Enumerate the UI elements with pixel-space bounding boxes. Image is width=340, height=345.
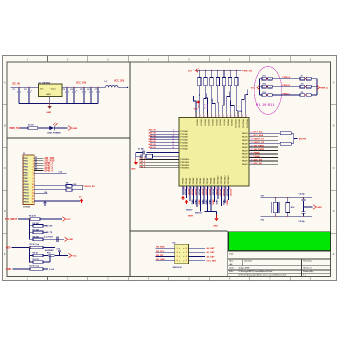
svg-text:PB10/T10: PB10/T10 — [234, 119, 236, 128]
svg-text:PC4/AD: PC4/AD — [181, 142, 189, 145]
wire RN4 to MCU — [218, 86, 219, 112]
svg-text:PB18/T: PB18/T — [212, 189, 214, 196]
svg-text:I2C1_SCL: I2C1_SCL — [254, 132, 264, 134]
svg-text:PD0/SEG: PD0/SEG — [181, 159, 190, 161]
resistor RN4 pull-up — [217, 70, 218, 71]
title block texts — [229, 253, 314, 277]
svg-text:R12: R12 — [263, 84, 266, 86]
resistor RN5 pull-up — [223, 70, 224, 71]
wire row 2 middle — [272, 86, 300, 88]
connector J1 body — [23, 155, 34, 205]
svg-text:23: 23 — [251, 142, 253, 144]
svg-text:15: 15 — [32, 198, 34, 200]
wire MCU bottom pin 6 — [200, 186, 202, 212]
svg-text:SWDIO: SWDIO — [186, 210, 193, 212]
wire R1 to LED1 — [38, 127, 50, 129]
svg-text:File:: File: — [229, 271, 234, 273]
svg-text:42: 42 — [241, 115, 244, 117]
title block column lines — [242, 259, 244, 266]
MCU top inside pin names — [196, 119, 248, 128]
wire U3 right pin 2 — [189, 251, 206, 253]
svg-text:PB4/T4: PB4/T4 — [211, 119, 214, 126]
wire row 2 to right bus — [311, 86, 317, 88]
wire XTAL2 — [136, 155, 141, 157]
wire MCU bottom pin 5 — [196, 186, 198, 207]
svg-text:GND: GND — [213, 225, 218, 227]
svg-text:1 2 3: 1 2 3 — [204, 105, 208, 107]
svg-text:Number: Number — [245, 260, 253, 263]
svg-text:VCC: VCC — [251, 87, 256, 89]
svg-text:PA9/X: PA9/X — [242, 163, 248, 166]
svg-text:TIM_PWM2: TIM_PWM2 — [254, 149, 265, 151]
svg-text:21: 21 — [251, 135, 253, 137]
svg-text:PE6/A6: PE6/A6 — [203, 178, 206, 185]
wire RN2 to MCU — [205, 86, 207, 112]
capacitor C3 — [66, 87, 68, 91]
capacitor C16 — [142, 151, 144, 155]
svg-text:SWCLK: SWCLK — [195, 213, 203, 215]
wire J1 pin 4 — [34, 165, 44, 167]
svg-text:PB112/T: PB112/T — [226, 189, 228, 197]
wire to bottom ground — [216, 212, 218, 218]
wire row 7 bend — [49, 256, 51, 263]
svg-text:C: C — [4, 167, 6, 170]
capacitor C17 — [140, 154, 142, 158]
sheet background — [3, 56, 337, 281]
wire MCU right pin 10 — [249, 163, 278, 165]
svg-text:R1 1K: R1 1K — [28, 124, 34, 126]
svg-text:PB19/T: PB19/T — [215, 189, 217, 196]
capacitor C4 — [73, 87, 75, 91]
svg-text:J9: J9 — [301, 76, 303, 78]
svg-text:LED1 POWER: LED1 POWER — [47, 133, 61, 135]
svg-text:1: 1 — [33, 158, 34, 160]
svg-text:PB6/T6: PB6/T6 — [219, 119, 221, 125]
svg-text:2: 2 — [177, 252, 178, 254]
svg-text:PC1/AD: PC1/AD — [181, 133, 189, 136]
wire MCU right pin 7 — [249, 153, 278, 155]
svg-text:32: 32 — [202, 115, 204, 117]
capacitor C7 — [97, 87, 99, 91]
svg-text:C:\Design\MCU_board\Sheet1.Sch: C:\Design\MCU_board\Sheet1.Sch — [239, 270, 273, 273]
svg-text:Sheet of: Sheet of — [303, 267, 312, 270]
svg-text:PB10/T: PB10/T — [184, 189, 186, 196]
svg-text:PWM_C: PWM_C — [283, 93, 291, 95]
wire right bus — [316, 79, 318, 95]
svg-text:PE13/A13: PE13/A13 — [227, 176, 230, 185]
svg-text:PB0/T0: PB0/T0 — [196, 119, 198, 125]
wire U3 left pin 3 — [155, 256, 174, 258]
svg-text:PIN14: PIN14 — [24, 195, 29, 198]
svg-text:C10: C10 — [59, 172, 62, 174]
wire crystal bottom — [261, 215, 313, 217]
svg-text:PIN13: PIN13 — [24, 193, 29, 195]
svg-text:o: o — [183, 260, 184, 262]
svg-text:C13 R_Cap: C13 R_Cap — [29, 265, 40, 267]
svg-text:PA4/X: PA4/X — [242, 146, 248, 149]
svg-text:PIN12: PIN12 — [24, 190, 29, 192]
wire row 1 middle — [272, 78, 300, 80]
svg-text:PWR_A: PWR_A — [320, 86, 328, 89]
svg-text:PIO_1: PIO_1 — [140, 161, 147, 163]
svg-text:PB13/T: PB13/T — [194, 189, 196, 196]
jumper row 3 left part R13 — [260, 94, 263, 96]
svg-text:PA7/X: PA7/X — [242, 156, 248, 159]
svg-text:3: 3 — [177, 256, 178, 258]
svg-text:J10: J10 — [301, 84, 304, 86]
svg-text:PB12/T12: PB12/T12 — [242, 119, 244, 128]
svg-text:13: 13 — [172, 144, 174, 146]
capacitor C11 on bottom pin — [44, 201, 46, 203]
svg-text:PB7/T7: PB7/T7 — [222, 119, 224, 125]
svg-text:ADJ/REF: ADJ/REF — [45, 249, 54, 252]
svg-text:R2: R2 — [66, 182, 68, 184]
svg-text:27: 27 — [251, 156, 253, 158]
wire row 3 to right bus — [311, 94, 317, 96]
svg-text:VCC: VCC — [72, 255, 77, 257]
wire MCU bottom pin 2 — [186, 186, 188, 198]
wire MCU left pin 3 — [150, 136, 179, 138]
svg-text:41: 41 — [237, 115, 240, 117]
svg-text:o: o — [183, 248, 184, 250]
svg-text:PA3/X: PA3/X — [242, 142, 248, 145]
svg-text:PE4/A4: PE4/A4 — [196, 177, 199, 184]
wire to R1 — [20, 127, 28, 129]
svg-text:o: o — [183, 252, 184, 254]
svg-text:D5: D5 — [35, 169, 37, 171]
ground rail wire — [18, 96, 20, 103]
svg-text:DC_IN: DC_IN — [13, 82, 20, 85]
resistor row 7 — [30, 261, 34, 263]
svg-text:TMR7: TMR7 — [208, 200, 210, 205]
svg-text:UART1_RX: UART1_RX — [254, 141, 265, 144]
resistor R14 1M — [286, 203, 290, 213]
svg-text:PE5/A5: PE5/A5 — [199, 178, 202, 185]
svg-text:AD0_IN: AD0_IN — [149, 129, 157, 132]
wire caps middle to ground — [304, 206, 313, 208]
svg-text:PB3/T3: PB3/T3 — [207, 119, 209, 125]
MCU top pin stubs and numbers — [195, 112, 248, 117]
svg-text:PA2/X: PA2/X — [242, 139, 248, 142]
wire R3 bend up — [72, 189, 83, 191]
capacitor C2 — [28, 87, 30, 91]
svg-text:BOOT0: BOOT0 — [299, 139, 307, 141]
sheet inner border — [7, 62, 331, 277]
MCU bottom inside pin names — [182, 176, 231, 185]
svg-text:Date:: Date: — [229, 267, 235, 270]
svg-text:11: 11 — [172, 138, 174, 140]
svg-text:PB11/T: PB11/T — [187, 189, 189, 196]
svg-text:PWR_3V3: PWR_3V3 — [243, 70, 254, 72]
svg-text:2: 2 — [33, 161, 34, 163]
wire XTAL1 — [136, 152, 143, 154]
svg-text:PA1/X: PA1/X — [242, 135, 248, 138]
svg-text:PD3/SEG: PD3/SEG — [181, 168, 190, 170]
svg-text:o: o — [179, 252, 180, 254]
svg-text:TMR2: TMR2 — [191, 200, 193, 205]
svg-text:PA5/X: PA5/X — [242, 149, 248, 152]
svg-text:D: D — [4, 210, 6, 213]
wire RN6 to MCU — [229, 86, 231, 112]
jumper row 3 right part J11 — [300, 94, 305, 97]
svg-text:LED_TX: LED_TX — [45, 232, 53, 234]
svg-text:PE11/A11: PE11/A11 — [220, 176, 223, 184]
svg-text:Vout: Vout — [51, 87, 56, 90]
svg-text:A2_NET: A2_NET — [207, 255, 216, 258]
svg-text:16: 16 — [32, 201, 34, 203]
svg-text:Drawn By:: Drawn By: — [303, 270, 314, 273]
wire MCU left pin 5 — [150, 142, 179, 144]
border zone ticks and labels — [3, 56, 337, 281]
svg-text:4: 4 — [33, 166, 34, 169]
svg-text:12: 12 — [32, 190, 34, 192]
resistor RN6 pull-up — [229, 70, 230, 71]
ground symbol below U1 — [49, 103, 51, 107]
svg-text:o: o — [179, 248, 180, 250]
svg-text:PB13/T13: PB13/T13 — [245, 119, 247, 128]
svg-text:8: 8 — [33, 178, 34, 180]
svg-text:6: 6 — [33, 172, 34, 174]
wire U3 right pin 1 — [189, 247, 206, 249]
svg-text:XT2: XT2 — [261, 220, 264, 222]
svg-text:TMR6: TMR6 — [205, 200, 207, 205]
wire J1 pin 2 — [34, 160, 44, 162]
svg-text:TMR9: TMR9 — [215, 200, 217, 205]
wire MCU bottom pin 12 — [221, 186, 223, 206]
wire J1 RS232 row B — [34, 189, 66, 191]
svg-text:PE2/A2: PE2/A2 — [189, 178, 192, 185]
svg-text:TMR5: TMR5 — [201, 200, 203, 205]
svg-text:EE_SDA: EE_SDA — [156, 246, 165, 249]
wire R2 to RS232 label — [72, 185, 83, 187]
svg-text:22: 22 — [251, 139, 253, 141]
svg-text:PE7/A7: PE7/A7 — [206, 178, 209, 185]
svg-text:o: o — [179, 260, 180, 262]
svg-text:PIO_0: PIO_0 — [140, 158, 147, 160]
svg-text:8: 8 — [186, 248, 187, 250]
svg-text:PE9/A9: PE9/A9 — [213, 178, 216, 185]
wire MCU left pin g2 4 — [140, 167, 180, 169]
jumper row 1 right part J9 — [300, 77, 305, 80]
svg-text:PC3/AD: PC3/AD — [181, 139, 189, 142]
power port MCU bottom — [186, 201, 188, 205]
svg-text:4 5 6: 4 5 6 — [204, 107, 208, 110]
svg-text:26: 26 — [251, 153, 253, 155]
wire MCU bottom pin 10 — [214, 186, 216, 202]
svg-text:PA6/X: PA6/X — [242, 153, 248, 156]
svg-text:37: 37 — [221, 115, 223, 117]
svg-text:5V0_INPUT: 5V0_INPUT — [5, 219, 18, 221]
svg-text:B: B — [4, 124, 6, 127]
svg-text:PIN3: PIN3 — [24, 164, 28, 166]
svg-text:D: D — [333, 210, 335, 213]
svg-text:36: 36 — [218, 115, 220, 117]
svg-text:25: 25 — [251, 149, 253, 151]
svg-text:C9 22p: C9 22p — [299, 221, 306, 223]
svg-text:GND: GND — [68, 239, 73, 241]
svg-text:TMR11: TMR11 — [222, 200, 224, 206]
wire J1 RS232 row A — [34, 185, 66, 187]
wire MCU bottom pin 1 — [182, 186, 184, 195]
wire LED1 to ground port — [54, 127, 67, 129]
svg-text:PIN9: PIN9 — [24, 181, 28, 183]
svg-text:TIM_PWM1: TIM_PWM1 — [254, 146, 265, 148]
svg-text:31: 31 — [199, 115, 201, 117]
svg-text:PWM_B: PWM_B — [283, 85, 291, 87]
wire J1 pin 6 — [34, 170, 44, 172]
svg-text:PD1/SEG: PD1/SEG — [181, 162, 190, 164]
wire MCU bottom pin 9 — [210, 186, 212, 211]
capacitor C5 — [83, 87, 85, 91]
section divider vertical line 2 — [227, 231, 229, 277]
svg-text:PA8/X: PA8/X — [242, 160, 248, 163]
svg-text:9: 9 — [173, 133, 174, 135]
wire row 3 middle — [272, 94, 300, 96]
wire J1 pin 3 — [34, 162, 44, 164]
svg-text:4-Apr-2008: 4-Apr-2008 — [239, 267, 251, 270]
svg-text:PIN1: PIN1 — [24, 158, 28, 160]
crystal Y1 body — [273, 202, 277, 213]
svg-text:GND: GND — [46, 94, 51, 96]
wire MCU left pin 2 — [150, 133, 179, 135]
svg-text:28: 28 — [251, 159, 253, 161]
wire MCU top pin stub — [242, 95, 245, 113]
resistor row 2 — [30, 225, 34, 227]
wire J1 pin 5 — [34, 167, 44, 169]
svg-text:8: 8 — [173, 130, 174, 132]
ground symbol MCU bottom — [216, 215, 218, 219]
svg-text:PB9/T9: PB9/T9 — [230, 119, 232, 125]
svg-text:GND: GND — [317, 207, 322, 209]
svg-text:PE10/A10: PE10/A10 — [217, 176, 220, 185]
svg-text:PIN10: PIN10 — [24, 184, 29, 186]
wire row1 — [18, 218, 30, 220]
resistor row 3 — [30, 231, 34, 233]
svg-text:C12 R_Cap: C12 R_Cap — [29, 244, 40, 246]
svg-text:XT1: XT1 — [261, 196, 264, 198]
wire MCU top pin stub — [227, 92, 230, 113]
capacitor C1 — [18, 87, 20, 91]
svg-text:R11: R11 — [263, 76, 266, 78]
wire crystal ground leg — [135, 153, 137, 161]
wire vertical feed rows 2-4 — [29, 219, 31, 239]
wire MCU left pin g2 3 — [140, 164, 180, 166]
wire U3 left pin 2 — [155, 251, 174, 253]
svg-text:VCC: VCC — [194, 109, 199, 111]
svg-text:4.7uF/10V: 4.7uF/10V — [44, 235, 54, 238]
svg-text:PA0/X: PA0/X — [242, 132, 248, 135]
section divider horizontal line right — [130, 230, 228, 232]
svg-text:10: 10 — [32, 184, 34, 186]
wire J1 pin row C — [34, 193, 48, 195]
svg-text:29: 29 — [251, 163, 253, 165]
svg-text:PB1/T1: PB1/T1 — [200, 119, 202, 125]
svg-text:VCC_5V0: VCC_5V0 — [76, 82, 87, 84]
svg-text:PIN6: PIN6 — [24, 172, 28, 174]
svg-text:GND: GND — [131, 168, 136, 170]
wire U3 right pin 3 — [189, 256, 206, 258]
svg-text:PB12/T: PB12/T — [191, 189, 193, 196]
svg-text:I2C1_SDA: I2C1_SDA — [254, 134, 264, 137]
svg-text:14: 14 — [172, 146, 174, 149]
svg-text:VCC_3V3: VCC_3V3 — [114, 81, 125, 83]
wire MCU bottom pin 7 — [203, 186, 205, 204]
wire U3 left pin 1 — [155, 247, 174, 249]
svg-text:7: 7 — [33, 175, 34, 177]
svg-text:D:\Protel\Examples\MCU_demo_bo: D:\Protel\Examples\MCU_demo_board\Sheet1… — [239, 274, 288, 277]
svg-text:J11: J11 — [301, 92, 304, 94]
svg-text:PB8/T8: PB8/T8 — [226, 119, 228, 125]
svg-text:AD6_IN: AD6_IN — [149, 146, 157, 149]
svg-text:C8 22p: C8 22p — [299, 193, 306, 195]
EEPROM U3 body — [175, 244, 189, 263]
wire MCU right pin 1 — [249, 132, 278, 134]
svg-text:AD5_IN: AD5_IN — [149, 143, 157, 146]
svg-text:5: 5 — [186, 260, 187, 262]
LED D1 — [49, 126, 54, 131]
capacitor C6 — [90, 87, 92, 91]
svg-text:GND: GND — [6, 269, 11, 271]
wire row 1 to right bus — [311, 78, 317, 80]
wire row 8 — [13, 268, 31, 270]
svg-text:TMR12: TMR12 — [226, 200, 228, 206]
wire MCU right pin 6 — [249, 150, 278, 152]
wire MCU left pin 7 — [150, 148, 179, 150]
svg-text:o: o — [183, 256, 184, 258]
svg-text:PIN4: PIN4 — [24, 166, 28, 169]
svg-text:PWM_A: PWM_A — [283, 76, 291, 79]
svg-text:7: 7 — [186, 252, 187, 254]
svg-text:AD2_IN: AD2_IN — [149, 134, 157, 137]
resistor row 4 — [30, 238, 34, 240]
svg-text:4: 4 — [177, 259, 178, 262]
wire MCU left pin 4 — [150, 139, 179, 141]
wire MCU right pin 5 — [249, 146, 278, 148]
svg-text:5: 5 — [33, 169, 34, 171]
wire J2 bracket — [291, 132, 293, 134]
wire MCU bottom pin 13 — [224, 186, 226, 203]
svg-text:A: A — [333, 82, 335, 85]
svg-text:UART1_TX: UART1_TX — [254, 138, 265, 141]
wire MCU bottom pin 4 — [193, 186, 195, 204]
wire crystal top — [261, 197, 313, 199]
wire MCU top pin stub — [246, 90, 248, 113]
svg-text:PE1/A1: PE1/A1 — [185, 178, 188, 185]
wire MCU left pin g2 1 — [140, 159, 180, 161]
wire MCU right pin 9 — [249, 160, 278, 162]
svg-text:PD2/SEG: PD2/SEG — [181, 165, 190, 167]
wire U3 left pin 4 — [155, 260, 174, 262]
resistor RN2 pull-up — [205, 70, 206, 71]
wire U3 right pin 4 — [189, 260, 206, 262]
wire RN5 to MCU — [223, 86, 224, 112]
svg-text:RS232_RX: RS232_RX — [85, 186, 96, 188]
svg-text:PB16/T: PB16/T — [205, 189, 207, 196]
wire U1 ground stub — [49, 97, 51, 104]
wire row 5 — [12, 247, 31, 249]
wire MCU left pin 6 — [150, 145, 179, 147]
svg-text:3: 3 — [33, 164, 34, 166]
svg-text:0.1uF: 0.1uF — [49, 269, 55, 271]
wire J1 pin 7 — [34, 172, 66, 174]
svg-text:EE_SCL: EE_SCL — [156, 251, 165, 253]
svg-text:12: 12 — [172, 141, 174, 143]
wire MCU bottom pin 8 — [207, 186, 209, 212]
wire MCU top pin stub — [204, 94, 207, 113]
svg-text:6: 6 — [186, 256, 187, 258]
ground symbol crystal — [135, 159, 137, 163]
title block outline — [228, 250, 331, 252]
